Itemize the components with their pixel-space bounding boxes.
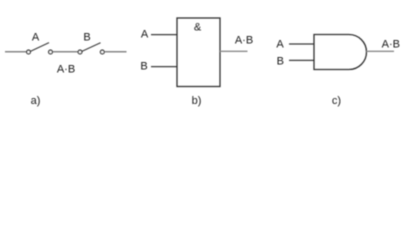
svg-text:A·B: A·B xyxy=(57,64,75,76)
svg-text:b): b) xyxy=(192,95,202,107)
wire a3 (right lead of circuit a) xyxy=(105,51,127,53)
label A·B (gate c output) xyxy=(382,38,400,50)
label A (gate b input) xyxy=(141,28,149,40)
label A (switch A) xyxy=(32,32,40,44)
svg-text:c): c) xyxy=(332,95,341,107)
label A·B (gate b output) xyxy=(235,35,253,47)
label &amp; (AND function qualifier) xyxy=(194,22,202,34)
wire c-inB xyxy=(289,59,314,61)
wire b-inA xyxy=(151,34,177,36)
svg-text:B: B xyxy=(83,32,90,44)
label B (switch B) xyxy=(83,32,90,44)
caption a) xyxy=(31,95,41,107)
label B (gate c input) xyxy=(277,55,284,67)
AND gate U2 (ANSI distinctive shape) xyxy=(314,35,367,70)
caption c) xyxy=(332,95,341,107)
switch B blade xyxy=(82,43,100,52)
svg-text:B: B xyxy=(277,55,284,67)
svg-text:A: A xyxy=(276,38,284,50)
wire c-out xyxy=(367,50,395,52)
svg-text:A·B: A·B xyxy=(235,35,253,47)
AND gate U1 (IEC rectangular symbol) xyxy=(177,18,220,87)
svg-text:A: A xyxy=(141,28,149,40)
label B (gate b input) xyxy=(140,60,147,72)
switch B contact left xyxy=(78,50,82,54)
wire b-out xyxy=(220,50,248,52)
svg-text:A: A xyxy=(32,32,40,44)
switch B contact right xyxy=(100,50,104,54)
label A (gate c input) xyxy=(276,38,284,50)
wire a1 (left lead of circuit a) xyxy=(5,51,26,53)
svg-text:&: & xyxy=(194,22,202,34)
svg-text:a): a) xyxy=(31,95,41,107)
wire b-inB xyxy=(151,66,177,68)
switch A blade xyxy=(31,43,49,52)
wire a2 (between switches) xyxy=(53,51,78,53)
svg-text:A·B: A·B xyxy=(382,38,400,50)
label A·B (circuit a output) xyxy=(57,64,75,76)
wire c-inA xyxy=(289,43,314,45)
caption b) xyxy=(192,95,202,107)
switch A contact right xyxy=(49,50,53,54)
switch A contact left xyxy=(27,50,31,54)
svg-text:B: B xyxy=(140,60,147,72)
